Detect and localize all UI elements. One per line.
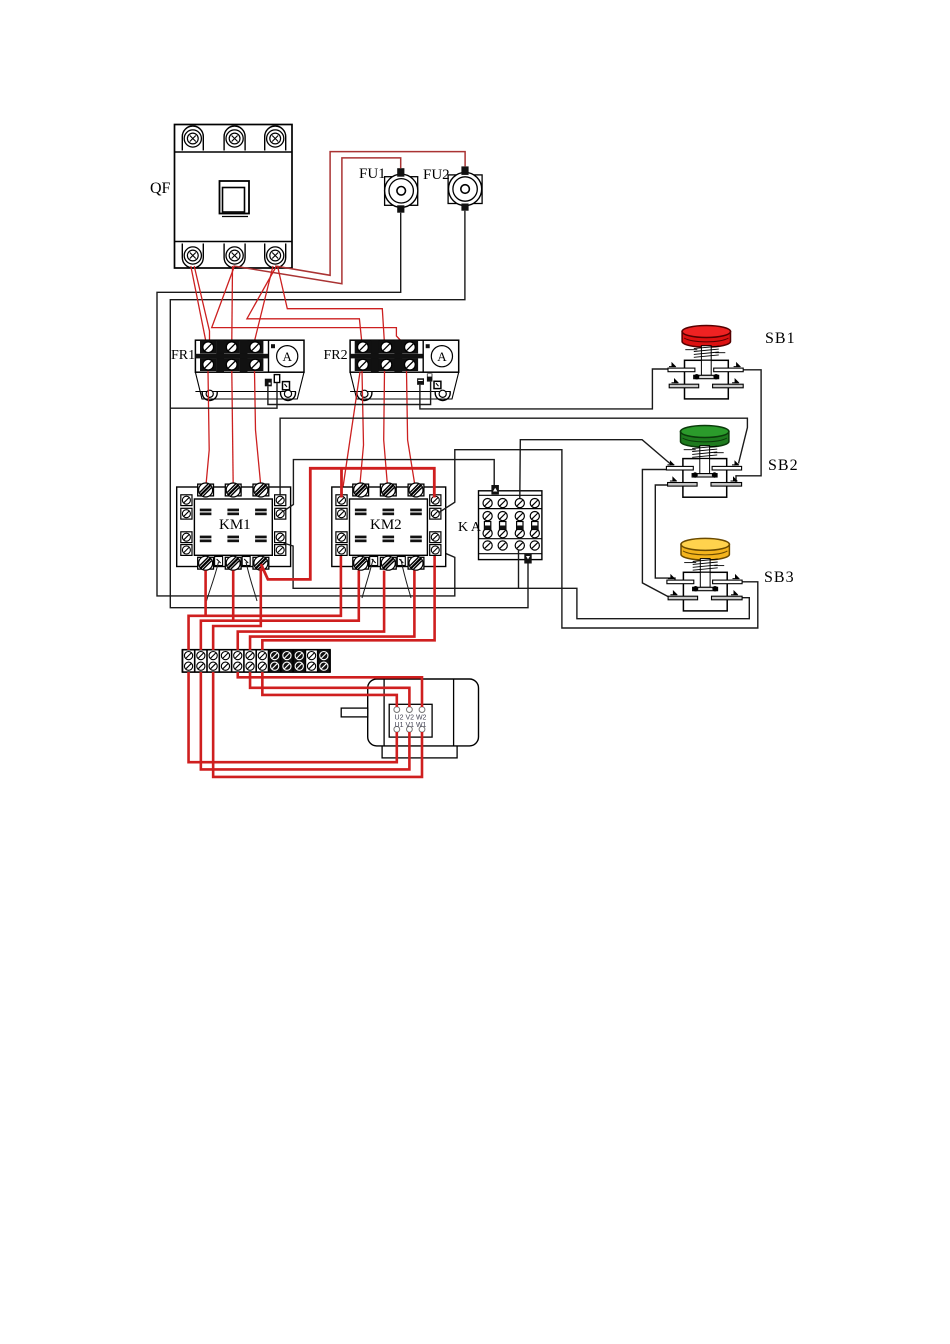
- svg-text:FR2: FR2: [324, 348, 348, 363]
- fuse FU1: [385, 168, 418, 213]
- thermal overload relay FR2: [350, 340, 459, 400]
- wire KM2-B3 to block c6 (red): [250, 571, 414, 651]
- wire block c1 to motor U1 (red): [189, 672, 397, 762]
- wire block c3 to motor W1 (red): [213, 672, 422, 777]
- svg-text:KM1: KM1: [219, 517, 251, 533]
- wire SB2 left to SB3 bar2 left (black): [642, 470, 668, 597]
- wire KM1-B1 drop (red): [204, 571, 207, 616]
- KM1 bottom aux hair wires (black): [207, 562, 219, 601]
- motor shaft: [341, 708, 368, 717]
- wire block c6 to motor V2 (red): [250, 672, 409, 707]
- wire KM1-B2 drop (red): [232, 571, 235, 621]
- wire FR2-B1 to KM2-T1 (red): [360, 371, 364, 486]
- KA bottom terminal: [524, 554, 531, 564]
- push button SB1: [668, 326, 743, 399]
- wire KM2 left-bottom to block c1 (red): [189, 556, 341, 650]
- KA top terminal: [491, 485, 499, 495]
- wire KM1 aux right-3 to SB3 bar2 right (black): [284, 543, 750, 619]
- wire KM2 right-bottom to block c7 (red): [262, 556, 434, 650]
- wire KM1 aux right-2 to KA coil top (black): [283, 460, 494, 512]
- wire KM1-B3 to block c3 (red): [213, 568, 261, 650]
- wire block c2 to motor V1 (red): [201, 672, 410, 769]
- terminal block XT: [182, 650, 330, 672]
- wire QF-T3 to FR2-T2 (red): [278, 266, 385, 344]
- wire FR1-B2 to KM1-T2 (red): [232, 371, 233, 486]
- wire SB2 bar2 left to SB3 bar1 left (black): [655, 485, 675, 581]
- wire KM2-B2 to block c5 (red): [238, 571, 384, 651]
- motor terminal box: [389, 704, 432, 737]
- wire QF-T3 to FR1-T3 (red): [255, 266, 274, 341]
- wire FR2 aux to SB1 NC left (black): [420, 369, 668, 409]
- wire FU1 bottom to left rail to KM2 coil (black): [157, 213, 455, 596]
- wire KM2-B1 to block c2 (red): [201, 571, 359, 651]
- KM2 bottom aux hair wires (black): [362, 559, 373, 598]
- wire FU2 bottom to left rail to KA coil (black): [170, 211, 528, 608]
- thick red bus KM1-B3 to KM2 top side terminals: [261, 468, 434, 579]
- svg-text:FU1: FU1: [359, 166, 386, 182]
- svg-text:SB3: SB3: [764, 569, 795, 586]
- svg-text:A: A: [437, 349, 447, 364]
- wire FR1-B1 to KM1-T1 (red): [206, 371, 209, 486]
- push button SB2: [666, 426, 741, 498]
- svg-text:QF: QF: [150, 180, 171, 197]
- wire KA contact to SB2 NO left (black): [520, 440, 671, 499]
- wire QF-T3 to FU2 (red feed): [275, 152, 465, 276]
- wire FR1-B3 to KM1-T3 (red): [255, 371, 261, 486]
- contactor KM2: [332, 483, 446, 570]
- wire QF-T2 to FR2-T3 (red): [212, 266, 404, 344]
- wire FR2-B1 to KM2 left-top terminal (red diagonal): [342, 372, 360, 494]
- circuit breaker QF: [175, 125, 293, 269]
- svg-text:FU2: FU2: [423, 167, 450, 183]
- svg-text:KM2: KM2: [370, 517, 402, 533]
- wire KM1 aux right-1 up to SB2 NO right (black): [280, 418, 747, 495]
- svg-text:U2 V2 W2: U2 V2 W2: [395, 715, 427, 722]
- svg-text:A: A: [283, 349, 293, 364]
- svg-text:SB1: SB1: [765, 330, 796, 347]
- wire KA lower contact tap (black): [518, 550, 520, 588]
- svg-text:K A: K A: [458, 520, 482, 535]
- wire SB1 NC right down to SB2 (black): [736, 370, 761, 483]
- wire block c7 to motor U2 (red): [262, 672, 396, 707]
- motor M: [341, 679, 478, 758]
- svg-text:U1 V1 W1: U1 V1 W1: [395, 722, 427, 729]
- wire QF-T1 to FR1-T1 (red pair): [191, 266, 206, 341]
- wire FR1 aux to FR2 aux (black series link): [268, 382, 431, 405]
- FR1 aux connector pins: [265, 375, 290, 390]
- wire FR2-B3 to KM2-T3 (red): [407, 371, 416, 486]
- thermal overload relay FR1: [195, 340, 304, 400]
- svg-text:FR1: FR1: [171, 348, 195, 363]
- relay KA: [479, 485, 542, 564]
- svg-text:SB2: SB2: [768, 457, 799, 474]
- wire QF-T2 to FR1-T2 (red): [231, 266, 234, 341]
- FR2 aux connector pins: [417, 374, 441, 389]
- wire QF-T3 to FR2-T1 (red): [247, 266, 362, 344]
- wire FR1 aux2 to left rail (black): [170, 383, 277, 409]
- wire FR2-B2 to KM2-T2 (red): [384, 371, 388, 486]
- wire KM2 aux right-2 to SB3 bar1 right (black): [438, 450, 757, 628]
- wire block c5 to motor W2 (red): [238, 672, 422, 707]
- push button SB3: [667, 538, 742, 610]
- contactor KM1: [177, 483, 291, 570]
- fuse FU2: [448, 166, 482, 210]
- wire QF-T2 to FU1 (red feed): [233, 158, 400, 284]
